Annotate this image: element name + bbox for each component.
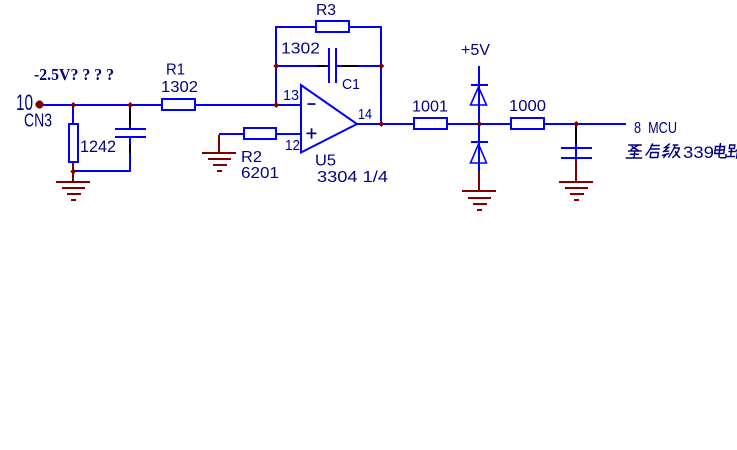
node: junction dot at output cap node bbox=[573, 121, 579, 127]
svg-text:CN3: CN3 bbox=[24, 111, 52, 131]
svg-text:1242: 1242 bbox=[80, 137, 116, 156]
label: Chinese annotation 至后级339电路 bbox=[626, 144, 681, 158]
capacitor C (input filter) top stub bbox=[129, 125, 131, 128]
wire: C1 feedback branch right blue bbox=[358, 65, 381, 67]
capacitor C (output filter) top plate bbox=[561, 147, 592, 149]
capacitor C (input filter, vertical at x=129) top pin black bbox=[129, 106, 131, 125]
pin: output capacitor top pin black bbox=[575, 125, 577, 144]
wire: op-amp output net to MCU bbox=[357, 123, 626, 125]
diode D lower cathode bar bbox=[471, 141, 488, 143]
svg-text:R2: R2 bbox=[241, 149, 262, 166]
op-amp plus sign (pin 12) bbox=[307, 133, 317, 135]
svg-text:1302: 1302 bbox=[161, 79, 198, 96]
diode D lower triangle bbox=[471, 144, 487, 163]
capacitor C1 left plate bbox=[328, 48, 330, 83]
resistor 1001 body bbox=[414, 118, 447, 129]
wire: feedback left vertical (node 13 up to R3/C1) bbox=[275, 26, 277, 106]
wire: C1 feedback branch left blue bbox=[276, 65, 317, 67]
glyph zhi bbox=[626, 145, 643, 158]
wire: bottom return wire from capacitor to ground node bbox=[73, 170, 130, 172]
svg-text:U5: U5 bbox=[315, 153, 336, 170]
wire: feedback right vertical down to output node bbox=[380, 26, 382, 125]
capacitor C1 right plate bbox=[335, 48, 337, 83]
svg-text:14: 14 bbox=[358, 106, 372, 123]
glyph hou bbox=[646, 144, 660, 158]
node: junction dot right C1 branch bbox=[378, 63, 384, 69]
pin: C1 right pin black bbox=[342, 65, 358, 67]
capacitor C (input filter) bottom stub bbox=[129, 138, 131, 144]
svg-text:12: 12 bbox=[285, 137, 300, 154]
pin: resistor 1242 bottom pin (maroon) bbox=[72, 163, 74, 181]
capacitor C (input filter) bottom plate bbox=[115, 136, 146, 138]
node: junction dot at inverting input pin 13 bbox=[273, 102, 279, 108]
op-amp U5 triangle bbox=[301, 85, 357, 153]
wire: vertical lead from input net down to resistor 1242 bbox=[72, 106, 74, 123]
node: junction dot at input/1242 bbox=[70, 102, 76, 108]
svg-text:+5V: +5V bbox=[461, 42, 490, 59]
svg-text:R3: R3 bbox=[316, 2, 336, 19]
svg-text:1302: 1302 bbox=[281, 41, 320, 58]
wire: lead from output node down to lower diode bbox=[478, 125, 480, 172]
resistor R 1242 (vertical body) bbox=[69, 124, 78, 162]
svg-text:13: 13 bbox=[283, 87, 299, 104]
wire: +5V lead down to upper diode bbox=[478, 66, 480, 124]
ground symbol under 1242 bbox=[56, 181, 90, 183]
port 10 CN3 terminal dot bbox=[36, 101, 44, 109]
ground symbol under lower diode bbox=[462, 190, 496, 192]
svg-text:R1: R1 bbox=[166, 62, 185, 79]
glyph ji bbox=[662, 144, 681, 158]
resistor R2 6201 body bbox=[244, 128, 276, 139]
capacitor C (input filter) bottom pin black bbox=[129, 144, 131, 153]
glyph dian bbox=[714, 144, 727, 158]
glyph lu bbox=[727, 145, 737, 158]
svg-text:339: 339 bbox=[683, 143, 714, 162]
diode D upper triangle bbox=[471, 87, 487, 105]
node: junction dot at diode clamp node bbox=[476, 121, 482, 127]
capacitor C (output filter) bottom plate bbox=[561, 157, 592, 159]
resistor 1000 body bbox=[511, 118, 544, 129]
ground symbol under output capacitor bbox=[559, 181, 593, 183]
pin: C1 left pin black bbox=[317, 65, 325, 67]
wire: main input net from CN3 port to op-amp inverting node bbox=[41, 104, 300, 106]
svg-text:6201: 6201 bbox=[241, 165, 279, 182]
wire: maroon lead from R2 down to ground bbox=[218, 135, 220, 152]
svg-text:1000: 1000 bbox=[509, 98, 546, 115]
wire: R2 to op-amp non-inverting pin 12 bbox=[219, 133, 300, 135]
node: junction dot at output pin 14 bbox=[378, 121, 384, 127]
capacitor C (input filter) top plate bbox=[115, 128, 146, 130]
wire: maroon lead from lower diode to ground bbox=[478, 172, 480, 190]
resistor R3 1302 body bbox=[316, 21, 349, 32]
op-amp minus sign (pin 13) bbox=[308, 103, 316, 105]
node: junction dot left C1 branch bbox=[273, 63, 279, 69]
svg-text:-2.5V? ? ? ?: -2.5V? ? ? ? bbox=[34, 65, 114, 84]
ground symbol under R2 bbox=[202, 152, 236, 154]
capacitor C1 left stub bbox=[325, 65, 328, 67]
capacitor C (output filter) middle stub bbox=[575, 149, 577, 157]
wire: vertical from capacitor bottom pin down to return wire bbox=[129, 153, 131, 172]
capacitor C1 right stub bbox=[337, 65, 342, 67]
resistor R1 1302 body bbox=[162, 99, 195, 110]
wire: maroon lead from output capacitor to ground bbox=[575, 159, 577, 181]
node: junction dot at 1242 ground node bbox=[70, 169, 76, 175]
svg-text:8 MCU: 8 MCU bbox=[634, 120, 677, 137]
svg-text:C1: C1 bbox=[342, 76, 360, 93]
wire: feedback top wire through R3 bbox=[275, 26, 382, 28]
svg-text:1001: 1001 bbox=[412, 99, 448, 116]
svg-text:3304 1/4: 3304 1/4 bbox=[317, 169, 388, 186]
diode D upper cathode bar bbox=[471, 84, 488, 86]
node: junction dot at input/cap bbox=[127, 102, 133, 108]
capacitor C (output filter) top stub bbox=[575, 144, 577, 147]
